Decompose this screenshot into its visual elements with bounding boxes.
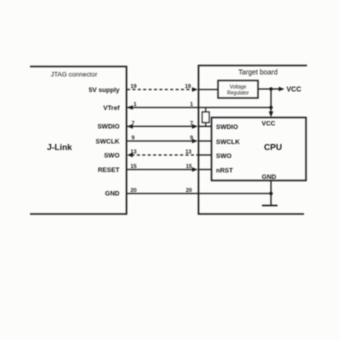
svg-text:CPU: CPU [264, 142, 282, 152]
svg-text:RESET: RESET [98, 167, 120, 174]
svg-text:20: 20 [131, 188, 137, 194]
svg-text:VCC: VCC [262, 120, 276, 127]
wire RESET (pin 15) right arrow [127, 164, 212, 172]
svg-text:9: 9 [132, 136, 135, 142]
svg-text:9: 9 [190, 136, 193, 142]
svg-text:JTAG connector: JTAG connector [51, 72, 98, 79]
wire SWCLK (pin 9) right arrow [127, 136, 212, 144]
svg-text:1: 1 [134, 102, 137, 108]
svg-text:SWO: SWO [104, 152, 120, 159]
wire 5V supply (pin 19, dashed) with right arrow [127, 84, 198, 92]
wire CPU GND down to ground [270, 181, 272, 206]
svg-text:19: 19 [185, 84, 191, 90]
wire GND (pin 20) to ground node [127, 188, 271, 194]
wire SWO (pin 13, dashed) left arrow [127, 150, 212, 158]
svg-text:7: 7 [190, 121, 193, 127]
svg-text:Regulator: Regulator [227, 91, 249, 97]
svg-text:VCC: VCC [287, 87, 302, 94]
wire SWDIO (pin 7) double arrow [127, 121, 212, 129]
svg-text:7: 7 [132, 121, 135, 127]
wire 5V into regulator [199, 89, 219, 91]
svg-text:GND: GND [262, 174, 277, 181]
wire regulator output to VCC [258, 87, 285, 92]
svg-text:Target board: Target board [238, 70, 277, 77]
svg-text:SWCLK: SWCLK [216, 139, 240, 146]
svg-text:13: 13 [131, 150, 137, 156]
svg-text:15: 15 [131, 164, 137, 170]
J-Link JTAG connector box [30, 67, 127, 215]
node GND junction [269, 192, 272, 195]
svg-text:SWO: SWO [216, 153, 232, 160]
svg-text:15: 15 [186, 164, 192, 170]
svg-text:J-Link: J-Link [47, 142, 72, 152]
svg-text:19: 19 [131, 84, 137, 90]
wire VTref (pin 1) with left arrow, runs to VCC node [127, 102, 271, 110]
svg-text:13: 13 [185, 150, 191, 156]
svg-text:SWDIO: SWDIO [216, 124, 238, 131]
node VCC junction on output [269, 87, 272, 90]
svg-text:nRST: nRST [216, 167, 233, 174]
svg-text:5V supply: 5V supply [89, 87, 120, 94]
CPU box [212, 118, 307, 181]
svg-text:20: 20 [186, 188, 192, 194]
ground [262, 205, 278, 207]
svg-text:SWCLK: SWCLK [96, 138, 120, 145]
svg-text:GND: GND [105, 190, 120, 197]
wire VCC rail down into CPU [269, 89, 274, 117]
resistor R pull-up [202, 108, 209, 127]
node VTref/VCC junction [269, 106, 272, 109]
svg-text:SWDIO: SWDIO [97, 124, 119, 131]
svg-text:VTref: VTref [103, 105, 120, 112]
Target board box [199, 66, 308, 215]
voltage regulator box [218, 81, 258, 99]
svg-text:1: 1 [190, 102, 193, 108]
